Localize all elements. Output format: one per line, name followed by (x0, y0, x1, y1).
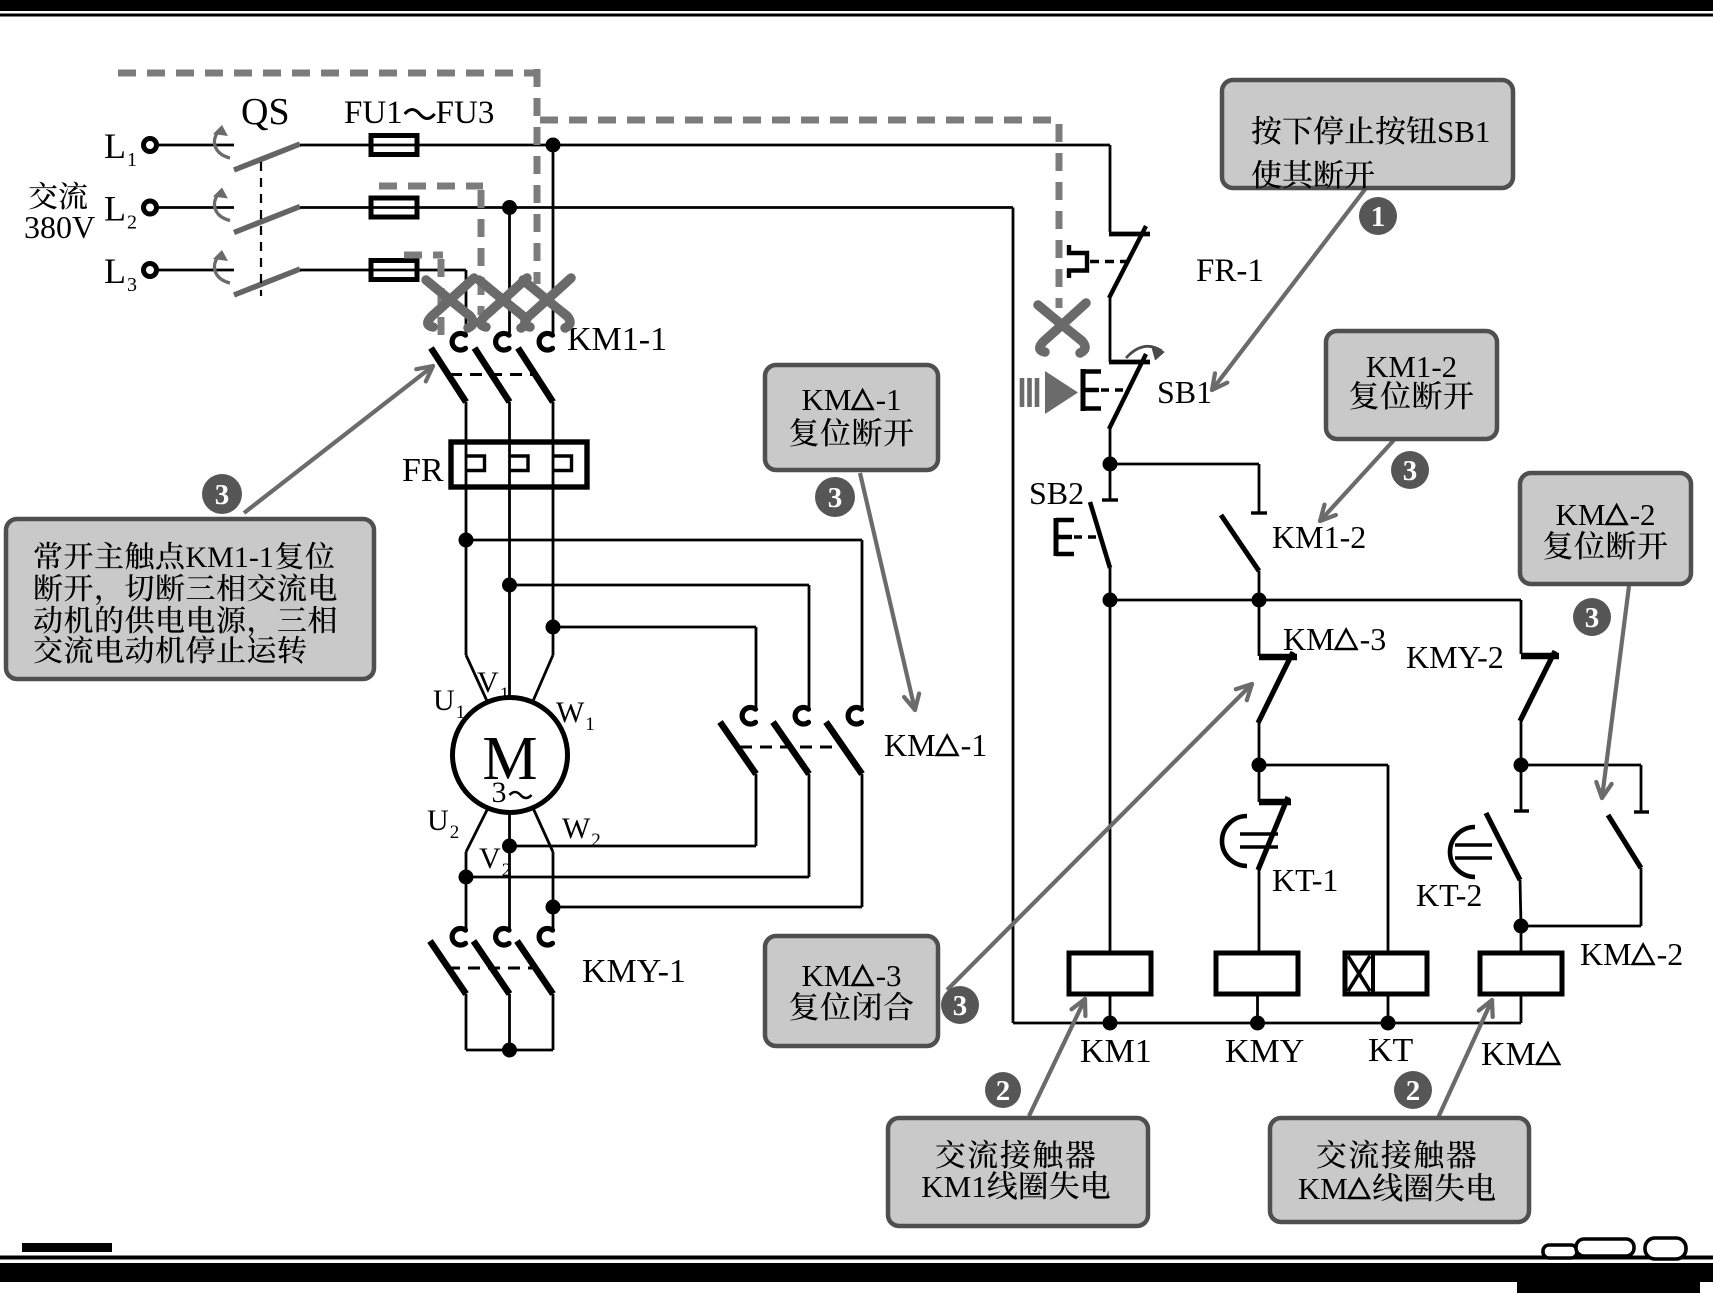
svg-text:KM: KM (802, 958, 852, 993)
svg-text:KM: KM (1556, 497, 1606, 532)
svg-text:2: 2 (591, 830, 601, 851)
svg-text:FR-1: FR-1 (1196, 253, 1264, 289)
svg-text:1: 1 (500, 684, 510, 705)
svg-text:-3: -3 (1360, 621, 1387, 657)
svg-text:-3: -3 (876, 958, 902, 993)
svg-text:3: 3 (215, 479, 230, 511)
svg-text:KM1: KM1 (1080, 1033, 1152, 1070)
svg-text:V: V (477, 666, 499, 699)
svg-text:KMY-1: KMY-1 (582, 953, 686, 990)
svg-text:KM1-1: KM1-1 (186, 541, 274, 574)
svg-text:3: 3 (127, 274, 137, 296)
svg-text:-1: -1 (876, 382, 902, 417)
svg-text:KM: KM (1481, 1036, 1536, 1073)
svg-text:V: V (479, 842, 501, 875)
svg-text:KM: KM (1298, 1171, 1348, 1206)
svg-text:2: 2 (1406, 1075, 1421, 1107)
svg-text:3: 3 (1403, 455, 1418, 487)
svg-text:KM: KM (1283, 621, 1335, 657)
svg-text:KM1-1: KM1-1 (567, 321, 667, 358)
svg-text:FU1: FU1 (344, 95, 403, 131)
svg-text:L: L (104, 251, 126, 291)
svg-text:KM: KM (1580, 936, 1632, 972)
svg-text:3: 3 (828, 482, 843, 514)
svg-text:2: 2 (996, 1075, 1011, 1107)
svg-text:-2: -2 (1630, 497, 1656, 532)
svg-text:KT: KT (1368, 1032, 1414, 1069)
svg-text:1: 1 (456, 702, 466, 723)
svg-text:L: L (104, 189, 126, 229)
svg-text:1: 1 (127, 149, 137, 171)
svg-text:KT-2: KT-2 (1416, 877, 1482, 913)
svg-text:SB1: SB1 (1157, 374, 1212, 410)
svg-text:FU3: FU3 (436, 95, 495, 131)
svg-text:SB2: SB2 (1029, 475, 1084, 511)
svg-text:W: W (556, 696, 585, 729)
svg-text:KMY: KMY (1225, 1033, 1304, 1070)
svg-text:-2: -2 (1657, 936, 1684, 972)
svg-text:KM: KM (884, 727, 936, 763)
svg-text:380V: 380V (24, 209, 95, 245)
svg-text:U: U (433, 684, 455, 717)
svg-text:KM1-2: KM1-2 (1272, 519, 1366, 555)
svg-text:3: 3 (953, 990, 968, 1022)
svg-text:SB1: SB1 (1437, 114, 1490, 149)
svg-text:-1: -1 (961, 727, 988, 763)
svg-text:3: 3 (492, 776, 507, 809)
svg-text:2: 2 (450, 822, 460, 843)
svg-text:KM1-2: KM1-2 (1366, 349, 1457, 384)
svg-text:1: 1 (1371, 201, 1386, 233)
svg-text:1: 1 (585, 714, 595, 735)
svg-text:KT-1: KT-1 (1272, 862, 1338, 898)
svg-text:KMY-2: KMY-2 (1406, 639, 1504, 675)
svg-text:KM1: KM1 (921, 1169, 986, 1204)
svg-text:FR: FR (402, 452, 444, 489)
svg-text:W: W (562, 812, 591, 845)
svg-text:U: U (427, 804, 449, 837)
svg-text:2: 2 (127, 212, 137, 234)
svg-text:QS: QS (241, 91, 290, 133)
svg-text:2: 2 (502, 860, 512, 881)
svg-text:3: 3 (1585, 602, 1600, 634)
svg-text:KM: KM (802, 382, 852, 417)
svg-text:L: L (104, 126, 126, 166)
